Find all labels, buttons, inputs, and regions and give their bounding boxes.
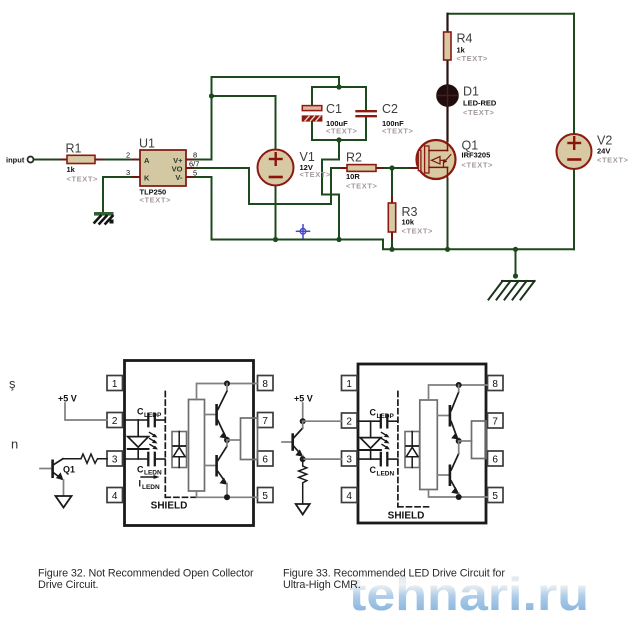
- pin stub R3 top: [391, 196, 393, 203]
- svg-text:K: K: [144, 174, 150, 183]
- resistor vertical zigzag fig33: [299, 459, 307, 503]
- node junction Q1 source rail: [445, 247, 450, 252]
- wire C1 C2 bottom rail: [312, 139, 366, 141]
- svg-text:3: 3: [346, 454, 352, 465]
- capacitor C_LEDN fig33: [370, 453, 398, 478]
- svg-text:LEDP: LEDP: [377, 413, 395, 420]
- svg-text:V2: V2: [597, 134, 612, 148]
- svg-text:Drive Circuit.: Drive Circuit.: [38, 579, 98, 591]
- node dot collector fig33: [300, 456, 306, 462]
- shield dashed line fig32: [165, 392, 196, 498]
- pin box 3 fig33: [342, 451, 358, 466]
- svg-text:5: 5: [492, 491, 498, 502]
- LED light arrows fig32: [150, 433, 159, 450]
- pin box 6 fig33: [488, 451, 504, 466]
- svg-text:I: I: [139, 479, 142, 489]
- svg-text:input: input: [6, 156, 25, 165]
- svg-text:8: 8: [492, 379, 498, 390]
- svg-text:1k: 1k: [67, 165, 76, 174]
- pin box 2: [107, 413, 123, 428]
- svg-text:Q1: Q1: [63, 465, 75, 475]
- svg-text:10k: 10k: [402, 218, 415, 227]
- svg-text:4: 4: [346, 491, 352, 502]
- LED internal fig32: [128, 420, 149, 459]
- pin box 1 fig33: [342, 376, 358, 391]
- I_LEDN arrow: [139, 475, 161, 491]
- node junction R3 to rail: [389, 247, 394, 252]
- svg-text:6: 6: [492, 454, 498, 465]
- node dot top rail fig32: [224, 381, 230, 387]
- wire C1 C2 top rail: [312, 86, 366, 88]
- svg-text:V-: V-: [175, 173, 183, 182]
- svg-text:7: 7: [492, 416, 498, 427]
- transistor upper fig32: [205, 384, 228, 441]
- pin stub U1 pin5: [186, 176, 193, 178]
- wire Q1 emitter to ground: [63, 480, 65, 496]
- capacitor C1 electrolytic: [302, 102, 357, 136]
- svg-text:<TEXT>: <TEXT>: [140, 196, 172, 205]
- svg-text:R2: R2: [346, 151, 362, 165]
- wire amp top to pin 8: [197, 384, 258, 400]
- wire ground stem: [515, 249, 517, 276]
- svg-text:Figure 33. Recommended LED Dri: Figure 33. Recommended LED Drive Circuit…: [283, 568, 505, 580]
- amplifier box fig33: [420, 400, 438, 490]
- pin box 1: [107, 376, 123, 391]
- wire U1 pin6/7 VO zigzag to R2: [186, 168, 347, 204]
- svg-text:<TEXT>: <TEXT>: [462, 161, 494, 170]
- svg-text:V1: V1: [300, 150, 315, 164]
- pin box 6: [258, 451, 274, 466]
- pin box 7: [258, 413, 274, 428]
- svg-text:6: 6: [262, 454, 268, 465]
- wire C2 leads: [365, 87, 367, 140]
- output box fig32: [241, 418, 258, 460]
- pin box 7 fig33: [488, 413, 504, 428]
- pin stub R1 right: [95, 159, 102, 161]
- node dot ground stem bottom: [513, 273, 518, 278]
- pin stub R3 bottom: [391, 232, 393, 239]
- pin stub Q1 gate: [410, 167, 417, 169]
- terminal input: [6, 156, 34, 165]
- wire pin2 internal: [125, 419, 148, 421]
- wire bottom ground rail: [212, 240, 575, 250]
- BOTTOM FIGURES: [9, 361, 503, 526]
- pin stub U1 pin8: [186, 159, 193, 161]
- wire pin2 internal fig33: [358, 420, 380, 422]
- wire input to U1 pin A: [34, 159, 141, 161]
- svg-text:LEDN: LEDN: [144, 470, 162, 477]
- svg-text:<TEXT>: <TEXT>: [326, 127, 358, 136]
- pin box 4: [107, 488, 123, 503]
- pin box 4 fig33: [342, 488, 358, 503]
- resistor R2: [346, 151, 378, 191]
- svg-text:A: A: [144, 156, 150, 165]
- svg-text:<TEXT>: <TEXT>: [402, 227, 434, 236]
- svg-text:<TEXT>: <TEXT>: [463, 108, 495, 117]
- svg-text:10R: 10R: [346, 172, 360, 181]
- capacitor C_LEDP fig33: [370, 408, 398, 428]
- svg-text:<TEXT>: <TEXT>: [382, 127, 414, 136]
- wire R4 to D1: [446, 60, 448, 85]
- svg-text:2: 2: [346, 416, 352, 427]
- output box fig33: [472, 421, 487, 459]
- pin box 3: [107, 451, 123, 466]
- pin stub U1 pin3: [133, 176, 140, 178]
- node junction jog wire to rail: [336, 237, 341, 242]
- pin stub R2 left: [340, 167, 347, 169]
- svg-text:R4: R4: [457, 32, 473, 46]
- IC body figure 32: [125, 361, 254, 526]
- wire bottom rail fig33 to pin 5: [429, 490, 488, 498]
- transistor upper fig33: [437, 385, 459, 441]
- svg-text:8: 8: [262, 379, 268, 390]
- svg-text:C1: C1: [326, 102, 342, 116]
- capacitor C_LEDN: [137, 453, 165, 477]
- wire mid to output box: [227, 439, 241, 441]
- pin stub U1 pin2: [133, 159, 140, 161]
- wire to pin 3 fig33: [303, 458, 342, 460]
- ground under U1 pin K: [94, 212, 114, 224]
- svg-text:LEDN: LEDN: [377, 471, 395, 478]
- wire top rail R4 to V2: [448, 13, 575, 15]
- svg-text:C: C: [370, 465, 377, 475]
- ground arrow fig32: [56, 496, 72, 508]
- svg-text:C: C: [137, 407, 144, 417]
- node dot top rail fig33: [456, 382, 462, 388]
- node dot +5V junction fig33: [300, 418, 306, 424]
- wire branch to V1 plus: [212, 96, 276, 150]
- LED D1 LED-RED: [437, 85, 497, 118]
- svg-text:<TEXT>: <TEXT>: [597, 156, 629, 165]
- pin box 5: [258, 488, 274, 503]
- ground arrow fig33: [296, 504, 310, 515]
- node junction bottom of C loop: [336, 137, 341, 142]
- wire R2 right to Q1 gate: [376, 167, 417, 169]
- op-amp U1 TLP250 optocoupler: [139, 137, 186, 205]
- svg-text:2: 2: [126, 151, 130, 160]
- wire R4 top lead: [446, 14, 448, 32]
- svg-text:<TEXT>: <TEXT>: [300, 170, 332, 179]
- svg-text:4: 4: [112, 491, 118, 502]
- amplifier box fig32: [189, 400, 205, 492]
- battery V1 12V: [258, 150, 332, 186]
- battery V2 24V: [557, 134, 629, 170]
- wire V1 minus to bottom rail: [275, 186, 277, 240]
- svg-text:2: 2: [112, 416, 118, 427]
- node dot mid fig33: [456, 438, 462, 444]
- svg-text:C: C: [137, 465, 144, 475]
- photodiode box fig33: [405, 432, 420, 468]
- resistor R4: [444, 32, 488, 64]
- resistor R1: [66, 142, 99, 184]
- svg-text:IRF3205: IRF3205: [462, 151, 491, 160]
- svg-text:<TEXT>: <TEXT>: [457, 54, 489, 63]
- svg-text:SHIELD: SHIELD: [388, 511, 425, 522]
- svg-text:1: 1: [346, 379, 352, 390]
- svg-text:+5 V: +5 V: [294, 394, 313, 404]
- svg-text:3: 3: [126, 168, 130, 177]
- svg-text:R1: R1: [66, 142, 82, 156]
- wire +5V down fig33: [302, 403, 304, 421]
- LED internal fig33: [360, 421, 381, 459]
- pin stub R1 left: [60, 159, 67, 161]
- node dot bottom rail fig32: [224, 494, 230, 500]
- svg-text:SHIELD: SHIELD: [151, 501, 188, 512]
- svg-text:<TEXT>: <TEXT>: [67, 175, 99, 184]
- wire U1 pin K to ground: [103, 177, 140, 213]
- pin box 2 fig33: [342, 413, 358, 428]
- transistor Q1 IRF3205 MOSFET: [417, 139, 494, 180]
- svg-text:5: 5: [193, 169, 197, 178]
- capacitor C_LEDP: [137, 407, 165, 427]
- wire pin3 internal: [125, 458, 148, 460]
- pin box 8: [258, 376, 274, 391]
- svg-text:Ultra-High CMR.: Ultra-High CMR.: [283, 579, 361, 591]
- node junction at 211.5,96: [209, 93, 214, 98]
- wire mid to output box fig33: [459, 440, 472, 442]
- wire +5V to pin 2: [65, 403, 107, 420]
- capacitor C2: [357, 102, 414, 136]
- svg-text:ş: ş: [9, 376, 16, 391]
- node junction top rail: [336, 84, 341, 89]
- wire amp top to pin 8 fig33: [429, 385, 488, 400]
- resistor R3: [388, 203, 433, 236]
- node junction R2 R3 Q1: [389, 165, 394, 170]
- photodiode box fig32: [172, 432, 187, 468]
- svg-text:6/7: 6/7: [189, 160, 199, 169]
- transistor lower fig32: [205, 440, 228, 497]
- shield dashed line fig33: [398, 392, 429, 507]
- svg-text:<TEXT>: <TEXT>: [346, 182, 378, 191]
- svg-text:U1: U1: [139, 137, 155, 151]
- LED light arrows fig33: [382, 433, 391, 450]
- node junction V1 minus rail: [273, 237, 278, 242]
- TOP SCHEMATIC: [6, 14, 629, 300]
- wire U1 pin5 V- down to bottom rail: [186, 177, 212, 240]
- wire U1 pin8 V+ up and to C1 top rail: [186, 77, 339, 160]
- svg-text:LEDP: LEDP: [144, 412, 162, 419]
- pin box 5 fig33: [488, 488, 504, 503]
- pin box 8 fig33: [488, 376, 504, 391]
- svg-text:3: 3: [112, 454, 118, 465]
- svg-text:D1: D1: [463, 85, 479, 99]
- wire to pin 2 fig33: [303, 420, 342, 422]
- ground bottom right: [489, 281, 535, 300]
- node dot mid fig32: [224, 437, 230, 443]
- svg-text:LED-RED: LED-RED: [463, 99, 497, 108]
- resistor zigzag to pin 3: [63, 454, 107, 463]
- origin marker: [297, 225, 310, 238]
- svg-text:5: 5: [262, 491, 268, 502]
- svg-text:+5 V: +5 V: [58, 394, 77, 404]
- svg-text:n: n: [11, 437, 18, 452]
- transistor lower fig33: [437, 441, 459, 497]
- transistor external fig33: [282, 421, 303, 459]
- IC body figure 33: [358, 364, 486, 523]
- svg-text:Figure 32. Not Recommended Ope: Figure 32. Not Recommended Open Collecto…: [38, 568, 254, 580]
- svg-text:LEDN: LEDN: [142, 484, 160, 491]
- wire D1 to Q1 drain: [446, 106, 448, 141]
- svg-text:C2: C2: [382, 102, 398, 116]
- transistor Q1 external: [40, 459, 75, 481]
- node junction ground stem rail: [513, 247, 518, 252]
- pin stub R2 right: [376, 167, 383, 169]
- wire C loop down to bottom rail with jog: [322, 140, 339, 240]
- wire R3 leads: [391, 168, 393, 249]
- wire C1 leads: [311, 87, 313, 140]
- svg-text:24V: 24V: [597, 147, 610, 156]
- CAPTIONS: [38, 568, 589, 621]
- wire Q1 source to bottom rail: [447, 179, 449, 250]
- wire pin3 internal fig33: [358, 458, 380, 460]
- svg-text:8: 8: [193, 151, 197, 160]
- wire bottom rail fig32 to pin 5: [197, 491, 258, 497]
- node dot bottom rail fig33: [456, 494, 462, 500]
- svg-text:1: 1: [112, 379, 118, 390]
- wire V2 leads: [573, 14, 575, 250]
- svg-text:7: 7: [262, 416, 268, 427]
- svg-text:C: C: [370, 408, 377, 418]
- pin stub U1 pin67: [186, 167, 193, 169]
